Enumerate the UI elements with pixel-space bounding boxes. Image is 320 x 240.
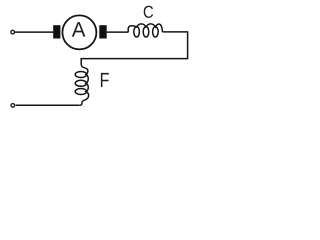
inductor C loop 2 <box>143 27 149 37</box>
inductor C loop 1 <box>134 27 140 37</box>
inductor F loop 2 <box>75 80 86 86</box>
terminal T2 (bottom left) <box>11 104 15 108</box>
inductor C (series coil) scallop path <box>128 24 162 32</box>
terminal T1 (top left) <box>11 30 15 34</box>
wire coil C to right corner, down right side <box>162 32 187 59</box>
wire bottom rail (coil F to terminal T2) <box>16 104 80 106</box>
inductor C loop 3 <box>153 27 159 37</box>
wire right brush to coil C <box>107 31 129 33</box>
inductor F loop 1 <box>75 72 86 78</box>
label A (armature) <box>72 22 86 36</box>
label F (field coil) <box>101 73 109 87</box>
wire middle rail (right corner to coil F) <box>81 58 188 60</box>
armature M1 (motor circle) <box>62 15 96 49</box>
brush B2 (right, black block) <box>99 25 106 38</box>
brush B1 (left, black block) <box>53 25 60 38</box>
inductor F loop 3 <box>75 89 86 95</box>
inductor F (field coil) scallop path with top and bottom leads <box>79 58 88 105</box>
wire T1 to left brush <box>15 31 54 33</box>
label C (series coil) <box>144 6 153 18</box>
